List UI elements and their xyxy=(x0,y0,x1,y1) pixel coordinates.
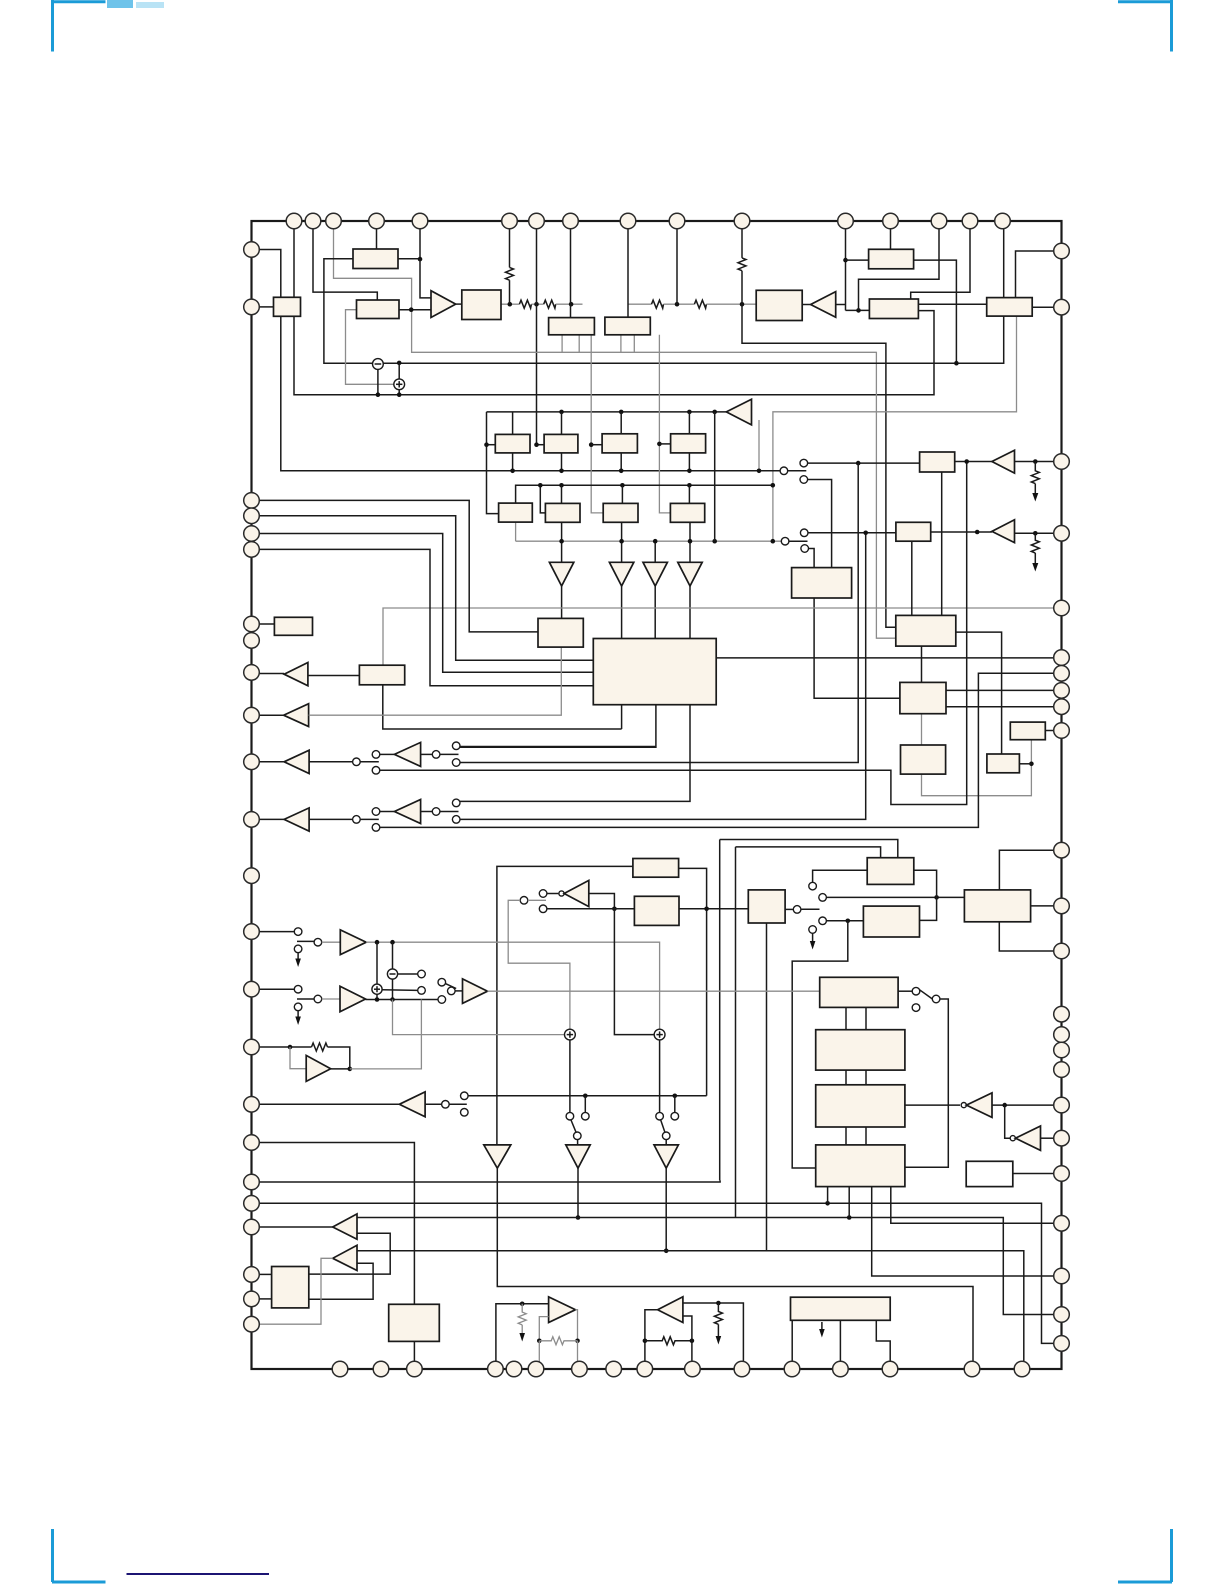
buffer DTRI666 xyxy=(654,1145,678,1168)
node v865 xyxy=(863,531,868,536)
wire pin850R to BR7 top xyxy=(999,850,1054,890)
wire pin819L to TP819 xyxy=(259,818,284,820)
wire row1 col1 stub xyxy=(487,444,496,446)
node TR1068 out xyxy=(348,1067,353,1072)
wire pin931L to sw931 xyxy=(259,931,294,933)
op-amp T2 xyxy=(811,292,836,318)
wire pin970 to BH top xyxy=(911,229,970,299)
wire line2 bus xyxy=(516,485,773,503)
node line1095 b xyxy=(673,1094,678,1099)
node bus541 d xyxy=(688,539,693,544)
switch swA throw1 xyxy=(800,459,808,467)
switch swB throw2 xyxy=(801,545,809,553)
block BR1 xyxy=(792,568,852,598)
switch sw1 mid xyxy=(432,751,440,759)
node line1 b xyxy=(559,469,564,474)
wire B4 right to node xyxy=(501,303,519,305)
switch sw1104 throw2 xyxy=(461,1109,469,1117)
wire BG2 left to swB throw1 xyxy=(808,532,896,534)
wire pin251R to BI top xyxy=(1016,251,1055,298)
block BR3 xyxy=(900,682,946,713)
node B1R xyxy=(418,257,423,262)
wire B1 right xyxy=(398,258,420,260)
block BD right chain xyxy=(756,290,802,320)
switch sw1 throw1 xyxy=(372,751,380,759)
op-amp T4 xyxy=(992,450,1015,473)
switch swDT2 t2 xyxy=(671,1112,679,1120)
wire RH1 to node536 xyxy=(531,303,543,305)
wire pin313 to B2 top xyxy=(313,229,377,300)
wire TRBOT1 out gray xyxy=(576,1310,578,1341)
wire BG left xyxy=(846,259,869,261)
block BS2 xyxy=(816,1030,905,1070)
buffer TR1068 xyxy=(306,1055,331,1081)
wire row1 col3 stub link xyxy=(591,444,602,446)
wire BBR step to pin890B xyxy=(876,1320,890,1361)
node 677bus xyxy=(675,302,680,307)
wire row1 col2 stub xyxy=(537,444,545,446)
wire swDT1 t2 up xyxy=(584,1096,586,1113)
wire BR3 to BR4 gray xyxy=(921,714,923,745)
resistor RH2 xyxy=(544,300,556,308)
node row1 col1 stub xyxy=(484,442,489,447)
amp TRBOT1 xyxy=(549,1297,576,1323)
gray bus541 xyxy=(516,540,782,542)
wire BS4 drop1 xyxy=(827,1187,829,1204)
switch swDT1 lever xyxy=(571,1120,576,1132)
wire T6 out to BL1 xyxy=(561,586,563,618)
wire BG2 right to T5 xyxy=(931,531,992,533)
wire row2 blk0 bottom xyxy=(515,522,517,541)
resistor R1035b xyxy=(1031,533,1039,553)
resistor R718 xyxy=(714,1303,722,1324)
wire INVB out xyxy=(1041,1137,1055,1139)
wire BIGBLK drop3 xyxy=(456,705,690,802)
wire BBR bottom left to pin792B xyxy=(791,1320,793,1361)
wire row1 col3 stub xyxy=(591,335,603,513)
node trp989 a xyxy=(375,997,380,1002)
wire B3 down to line1 xyxy=(281,316,784,471)
switch swSum pole xyxy=(448,987,456,995)
wire BS1-BS2 links xyxy=(845,1007,847,1029)
block BI xyxy=(987,298,1032,317)
wire sw989 to TRP989 xyxy=(322,998,340,1000)
buffer TP1104 xyxy=(399,1092,425,1117)
wire pin742 upper xyxy=(741,229,743,258)
switch swA lever xyxy=(788,470,807,472)
node bus541 c xyxy=(653,539,658,544)
DAC row2 block 1 xyxy=(545,503,580,522)
node line2 c xyxy=(687,483,692,488)
switch sw2 lever xyxy=(360,818,379,820)
wire K bottom to pin414B xyxy=(413,1341,415,1361)
node 571bus xyxy=(569,302,574,307)
node t3c xyxy=(687,410,692,415)
wire T5 back to pin533R xyxy=(1015,532,1055,534)
buffer TRB2 xyxy=(333,1245,357,1270)
wire pin549L to BIGBLK xyxy=(259,549,593,685)
node bus541 b xyxy=(619,539,624,544)
switch sw2 throw2 xyxy=(372,824,380,832)
buffer DTRI578 xyxy=(566,1145,590,1168)
wire DTRI496 out xyxy=(497,1168,973,1361)
wire pin1047L input xyxy=(259,1046,311,1048)
block BM3 xyxy=(748,890,785,923)
node DTRI666 join xyxy=(664,1249,669,1254)
wire TP715 back gray to BL1 xyxy=(309,647,562,715)
node minus out xyxy=(397,361,402,366)
arrow sw989 xyxy=(297,1011,299,1018)
wire BS2-BS3 links xyxy=(845,1070,847,1085)
block BL2 xyxy=(274,617,312,635)
buffer TRB1 xyxy=(333,1214,357,1239)
buffer T7 xyxy=(609,562,633,586)
wire B2 left gray to plus xyxy=(346,310,395,385)
wire TR1068 gray feedback xyxy=(350,1000,422,1069)
wire minusB out to throw xyxy=(398,973,418,975)
switch swDT1 t1 xyxy=(566,1112,574,1120)
block B1 top filter xyxy=(353,249,398,269)
wire row2 bottoms to gray bus541 xyxy=(561,522,563,562)
wire pin1142L to K xyxy=(259,1143,414,1305)
switch sw2 throw1 xyxy=(372,808,380,816)
wire plusR left feed xyxy=(614,909,654,1035)
sum minusB xyxy=(387,969,397,979)
wire pin677 drop xyxy=(676,229,678,304)
block BL1 xyxy=(538,618,583,647)
wire pin761L to TP761 xyxy=(259,761,284,763)
buffer U2 xyxy=(394,800,420,824)
node trp989 b xyxy=(390,997,395,1002)
wire sw2 throwB to v865 xyxy=(460,533,866,820)
wire v720 long xyxy=(719,840,721,1181)
wire U2 back to mid xyxy=(421,811,433,813)
resistor RH1 xyxy=(519,300,531,308)
node R1035b xyxy=(1033,531,1038,536)
wire row1 col2 topfeed xyxy=(561,412,563,435)
wire T4 back to pin461R xyxy=(1015,461,1055,463)
wire TP1104 back to sw1104 xyxy=(425,1103,442,1105)
node line1 d xyxy=(687,469,692,474)
switch swSum t2 xyxy=(418,987,426,995)
DAC row2 block 3 xyxy=(670,503,704,522)
wire BS3-BS4 links xyxy=(845,1127,847,1145)
wire BS4 drop3 to pin1276R xyxy=(872,1187,1054,1276)
switch swR throw1 xyxy=(809,882,817,890)
wire pin249L to B3 and line1 xyxy=(259,250,281,298)
block BG top right xyxy=(869,249,914,268)
wire fb2 to pin692B xyxy=(691,1341,693,1361)
wire row1 col1 topfeed xyxy=(512,412,514,435)
block B3 left input xyxy=(274,297,301,316)
block W1 white xyxy=(966,1161,1013,1186)
switch sw2 throwA xyxy=(452,799,460,807)
wire p1047 gray to TR1068 xyxy=(290,1047,306,1069)
buffer TP819 xyxy=(284,808,309,831)
op-amp T5 xyxy=(992,520,1015,543)
node line1 e xyxy=(757,469,762,474)
node R718 xyxy=(716,1301,721,1306)
node row1 col4 stub xyxy=(657,442,662,447)
block BH xyxy=(869,299,918,319)
node line2 b xyxy=(620,483,625,488)
wire BS4 drop2 xyxy=(848,1187,850,1218)
wire minus1 down xyxy=(377,369,379,394)
node tr931 a xyxy=(375,940,380,945)
switch sw931 throw xyxy=(314,938,322,946)
wire TRSW2 out gray to BS1 xyxy=(488,990,820,992)
buffer TRP931 xyxy=(340,930,366,955)
wire TP761 back to sw1 pole xyxy=(309,761,353,763)
wire T2 back to pin845 vertical xyxy=(836,304,846,306)
wire out1 to pin579B xyxy=(577,1341,579,1362)
resistor RH3 xyxy=(652,300,664,308)
crop mark bottom-left xyxy=(52,1529,106,1582)
resistor RHBOT1 xyxy=(539,1337,577,1345)
sum plus1 xyxy=(394,379,405,390)
block BBR bottom right xyxy=(791,1297,891,1320)
wire R509 to bus xyxy=(509,280,511,304)
wire plusL down xyxy=(569,1040,571,1112)
switch swINV lever xyxy=(528,899,546,901)
wire swB throw2 to BR1 xyxy=(809,549,815,568)
wire BD right to T2 tip xyxy=(802,304,810,306)
node tr931 b xyxy=(390,940,395,945)
wire pin672L to TP672 xyxy=(259,673,284,675)
wire swINV c1 to bubble xyxy=(547,893,559,895)
wire pin845 drop xyxy=(845,229,847,311)
wire BF bottom taps xyxy=(620,335,622,353)
switch swS1 lever xyxy=(920,990,933,999)
switch swA throw2 xyxy=(800,476,808,484)
node bus541 f xyxy=(771,539,776,544)
wire swDT1 pole down xyxy=(577,1140,579,1145)
wire minusB down xyxy=(392,979,394,999)
switch swDT2 pole xyxy=(662,1132,670,1140)
node line2 blk1 xyxy=(538,483,543,488)
wire pin536 long drop xyxy=(536,229,538,445)
DAC row1 block 3 xyxy=(602,434,637,453)
wire B1 left to minus bus xyxy=(324,259,373,364)
wire pin624L stub xyxy=(259,623,274,625)
wire gray607 pin608 xyxy=(383,608,1054,665)
wire BI right to pin307R xyxy=(1032,306,1054,308)
wire pin1274L stub xyxy=(259,1273,271,1275)
wire T3 back gray to line1 xyxy=(758,420,760,471)
node minus bus BG xyxy=(954,361,959,366)
wire RH4 to BD xyxy=(706,303,756,305)
wire branch to BS4 left xyxy=(792,921,848,1168)
wire pin570 to BE top xyxy=(570,229,572,318)
DAC row1 block 4 xyxy=(671,434,706,453)
wire v714 link xyxy=(714,412,716,541)
wire BM1 right to v706 xyxy=(679,868,707,1095)
wire pin890 to BG top xyxy=(890,229,892,250)
node swR t3 branch xyxy=(846,919,851,924)
DAC row2 block 2 xyxy=(603,503,638,522)
top pin row xyxy=(286,213,1010,229)
switch sw1104 throw1 xyxy=(461,1092,469,1100)
wire pin939 to BH riser xyxy=(859,229,940,311)
block BM1 feedback xyxy=(633,859,679,878)
wire BM3 right to swR pole xyxy=(785,908,793,910)
crop mark top-right xyxy=(1118,0,1172,52)
switch swB pole xyxy=(781,537,789,545)
node line1 a xyxy=(510,469,515,474)
node T4 in xyxy=(964,459,969,464)
wire BS4 drop4 to pin1223R xyxy=(891,1187,1054,1224)
switch swB throw1 xyxy=(800,529,808,537)
op-amp T3 xyxy=(726,399,751,425)
node fb1 right xyxy=(575,1339,580,1344)
block BE xyxy=(549,318,595,335)
node swA v857 xyxy=(856,461,861,466)
wire BBR vertical pin840B xyxy=(839,1320,841,1361)
wire pin533L to BIGBLK xyxy=(259,534,593,673)
wire BG2 bottom to BR2 top xyxy=(911,541,913,615)
wire row1 col3 topfeed xyxy=(620,412,622,434)
arrow swR t4 xyxy=(812,933,814,942)
wire swS1 to BS4 right xyxy=(905,999,948,1167)
wire TRB1 lower input xyxy=(309,1233,390,1274)
switch sw1 mid lever xyxy=(440,753,459,755)
block BS1 xyxy=(820,977,898,1007)
block K bottom center xyxy=(389,1304,440,1341)
switch swR throw3 xyxy=(819,917,827,925)
right pin column xyxy=(1054,243,1070,1351)
node 536bus xyxy=(534,302,539,307)
wire T8 out to BIGBLK xyxy=(654,586,656,639)
wire T9 out to BIGBLK xyxy=(689,586,691,639)
wire W1 white right xyxy=(1013,1173,1054,1175)
footer rule xyxy=(127,1573,270,1575)
node line1217 xyxy=(847,1215,852,1220)
wire v720 to BR8 xyxy=(720,840,898,858)
switch swS1 throw2 xyxy=(912,1004,920,1012)
wire BR8 right loop xyxy=(914,870,937,920)
wire swSum t4 link xyxy=(421,999,438,1001)
wire BM2 right xyxy=(679,908,748,910)
node plusbus b xyxy=(397,392,402,397)
wire T1 to B4 xyxy=(456,303,462,305)
wire BR2 to BR3 xyxy=(921,646,923,682)
wire BR7 bottom to pin951R xyxy=(999,922,1054,951)
wire pin1298L stub xyxy=(259,1298,271,1300)
wire fb2 riser xyxy=(683,1316,692,1341)
resistor R1035a xyxy=(1031,462,1039,484)
wire TRB2 tip gray to pin1324L xyxy=(259,1258,332,1324)
switch sw1104 pole xyxy=(442,1101,450,1109)
wire to BH left xyxy=(846,309,870,311)
crop mark bottom-right xyxy=(1118,1529,1172,1582)
wire BR2 right down xyxy=(956,632,1002,754)
block BR7 xyxy=(964,890,1030,922)
block BR6 xyxy=(987,754,1020,773)
resistor R509 xyxy=(506,267,514,280)
node p1047 xyxy=(288,1045,293,1050)
bottom pin row xyxy=(332,1361,1030,1377)
wire pin420 down xyxy=(419,229,421,259)
switch swS1 pole xyxy=(912,987,920,995)
wire BL3 bottom to BIGBLK drop1 xyxy=(383,685,622,729)
buffer TRP989 xyxy=(340,986,366,1011)
wire line770 to pin461 net xyxy=(380,462,967,805)
wire pin1227L to TRB1 xyxy=(259,1226,332,1228)
wire TRB2 lower input xyxy=(309,1263,373,1299)
node line2 end xyxy=(771,483,776,488)
node t3a xyxy=(559,410,564,415)
wire line1250 to pin1022B xyxy=(357,1251,1024,1361)
buffer TP715 xyxy=(284,704,309,727)
arrow R1035a xyxy=(1034,484,1036,494)
wire TP672 back to BL3 xyxy=(308,675,360,677)
wire sw2 throwA line827 to pin673R xyxy=(380,673,1054,827)
wire line2 to row2blk1 xyxy=(540,485,545,513)
wire BR3 right to pin706R xyxy=(946,706,1054,708)
wire BR1 bottom to BR3 xyxy=(814,598,900,698)
block J bottom left xyxy=(272,1267,309,1308)
node BGin xyxy=(843,258,848,263)
block B2 xyxy=(357,300,400,319)
wire pin1104L to TP1104 xyxy=(259,1103,399,1105)
wire pin1203L line to pin1343R xyxy=(259,1203,1054,1343)
switch sw931 lever xyxy=(297,940,314,942)
wire BG right down to minus bus xyxy=(914,260,957,363)
resistor R742 xyxy=(738,258,746,271)
wire RH3 to RH4 xyxy=(664,303,695,305)
node T5 in xyxy=(975,530,980,535)
resistor RH1047 xyxy=(312,1043,328,1051)
block BG1 input gate upper xyxy=(920,452,955,472)
node DTRI578 join xyxy=(576,1215,581,1220)
arrow R1035b xyxy=(1034,553,1036,564)
op-amp T1 xyxy=(431,291,456,318)
crop mark top-left xyxy=(52,0,164,52)
switch sw1 throwA xyxy=(452,742,460,750)
left pin column xyxy=(244,242,260,1332)
switch swINV circle2 xyxy=(539,905,547,913)
node INV1 out xyxy=(612,907,617,912)
wire pin715L to TP715 xyxy=(259,714,283,716)
wire R742 down W1 path xyxy=(742,271,896,628)
block BL3 xyxy=(359,665,404,685)
block B4 after amp T1 xyxy=(462,290,501,320)
wire minus to plus vertical xyxy=(398,363,400,379)
wire pin333 gray tap to BR2 xyxy=(334,229,896,638)
wire swR t1 to BR8 xyxy=(813,870,868,882)
switch swDT2 t1 xyxy=(656,1112,664,1120)
wire pin989L to sw989 xyxy=(259,988,294,990)
minus bus wire xyxy=(383,229,1004,363)
wire INV1 back down xyxy=(589,894,615,909)
node swR t2 branch xyxy=(934,895,939,900)
wire BR5 right to pin730R xyxy=(1045,730,1054,732)
DAC row1 block 1 xyxy=(495,434,530,453)
wire swDT2 pole down xyxy=(665,1140,667,1145)
node fb2 left xyxy=(643,1339,648,1344)
buffer T9 xyxy=(678,562,702,586)
wire gray 352 bus xyxy=(412,351,877,353)
wire BI bottom gray xyxy=(773,316,1017,541)
sum plusR xyxy=(654,1029,665,1040)
DAC row1 block 2 xyxy=(544,434,578,453)
node line2 a xyxy=(559,483,564,488)
inverter INVA xyxy=(961,1103,966,1108)
wire INVA out xyxy=(992,1104,1054,1106)
wire BIGBLK drop1 xyxy=(621,705,623,729)
wire line762 to v857 xyxy=(460,463,858,762)
wire BG1 bottom to BR2 top xyxy=(941,472,943,615)
